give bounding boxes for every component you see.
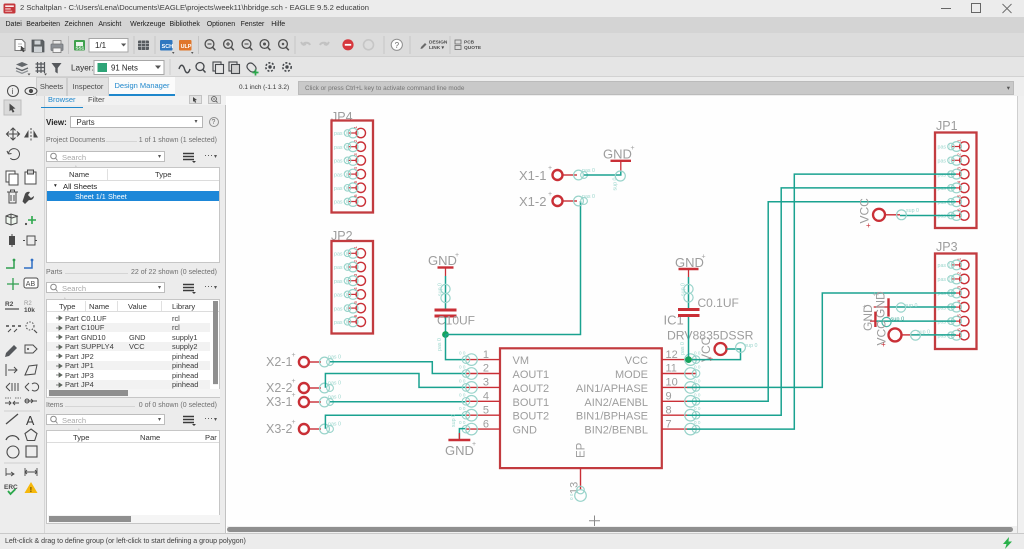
svg-text:pas 0: pas 0 <box>938 291 951 297</box>
IC pin 6 GND <box>459 418 537 436</box>
canvas horizontal scrollbar <box>227 526 1017 533</box>
svg-text:X1-2: X1-2 <box>519 194 546 209</box>
svg-text:4: 4 <box>957 180 962 183</box>
ground GND above C0.1UF <box>675 254 706 278</box>
svg-text:pas 0: pas 0 <box>680 342 686 355</box>
svg-text:sup 0: sup 0 <box>905 303 918 309</box>
svg-text:pas 0: pas 0 <box>938 305 951 311</box>
connector JP2 <box>331 229 373 334</box>
svg-text:pas 0: pas 0 <box>334 145 347 151</box>
svg-text:VM: VM <box>513 355 530 367</box>
connector JP1 <box>935 119 977 228</box>
svg-text:pas 0: pas 0 <box>938 159 951 165</box>
svg-text:+: + <box>631 145 635 152</box>
svg-text:BOUT2: BOUT2 <box>513 411 550 423</box>
mouse crosshair <box>589 516 600 527</box>
wire GND to JP3 pin 4 <box>890 303 957 312</box>
svg-text:+: + <box>702 254 706 261</box>
svg-text:1: 1 <box>957 257 962 260</box>
svg-text:3: 3 <box>957 286 962 289</box>
svg-text:6: 6 <box>353 314 358 317</box>
pin X2-2 <box>266 378 341 395</box>
canvas vertical scrollbar <box>1017 96 1024 533</box>
supply VCC at JP1 pin 6 <box>858 198 886 230</box>
pin X3-1 <box>266 392 341 409</box>
svg-text:1: 1 <box>353 126 358 129</box>
svg-text:SCH: SCH <box>162 44 173 50</box>
IC pin 5 BOUT2 <box>459 404 549 422</box>
svg-text:QUOTE: QUOTE <box>464 45 482 51</box>
svg-text:pas 0: pas 0 <box>334 279 347 285</box>
svg-text:pas 0: pas 0 <box>328 395 341 401</box>
toolbar row 1 <box>0 33 1024 57</box>
svg-text:pas 0: pas 0 <box>334 306 347 312</box>
svg-text:ERC: ERC <box>4 484 18 491</box>
svg-text:JP4: JP4 <box>331 110 353 124</box>
svg-text:X3-1: X3-1 <box>266 395 292 409</box>
svg-text:+: + <box>863 304 867 311</box>
wire X3-2 to IC pin5 BOUT2 <box>325 415 465 429</box>
svg-text:5: 5 <box>353 301 358 304</box>
svg-text:5: 5 <box>957 194 962 197</box>
supply VCC at IC pin 12 <box>699 336 727 363</box>
svg-text:PCB: PCB <box>464 40 475 46</box>
IC pin 10 AIN1/APHASE <box>576 377 701 395</box>
svg-text:0 0: 0 0 <box>694 365 701 370</box>
IC pin 11 MODE <box>615 363 701 381</box>
left panel: design manager <box>45 96 226 533</box>
svg-text:BOUT1: BOUT1 <box>513 397 550 409</box>
pin X1-2 <box>519 191 595 209</box>
svg-text:VCC: VCC <box>625 355 648 367</box>
svg-text:DESIGN: DESIGN <box>429 40 448 46</box>
svg-text:0 0: 0 0 <box>694 406 701 411</box>
toolbar row 2 <box>0 57 1024 77</box>
svg-text:+: + <box>292 378 296 385</box>
wire X1-1 to GND <box>584 171 625 191</box>
wire X3-1 to IC pin4 BOUT1 <box>330 401 465 403</box>
svg-text:BIN2/BENBL: BIN2/BENBL <box>584 425 648 437</box>
wire VCC to junction <box>692 343 758 360</box>
svg-text:3: 3 <box>353 273 358 276</box>
IC pin 13 EP <box>569 468 587 501</box>
svg-text:+: + <box>548 165 552 172</box>
IC pin 7 BIN2/BENBL <box>584 418 700 436</box>
svg-text:0 0: 0 0 <box>459 378 466 383</box>
svg-text:pas 0: pas 0 <box>328 381 341 387</box>
svg-text:i: i <box>12 87 14 96</box>
svg-text:sup 0: sup 0 <box>451 414 457 427</box>
svg-text:0 0: 0 0 <box>569 493 574 500</box>
svg-text:R2: R2 <box>5 301 14 308</box>
svg-text:+: + <box>881 340 886 349</box>
svg-text:pas 0: pas 0 <box>334 172 347 178</box>
svg-text:6: 6 <box>353 194 358 197</box>
svg-text:sup 0: sup 0 <box>891 317 905 323</box>
svg-text:X1-1: X1-1 <box>519 168 546 183</box>
svg-text:0 0: 0 0 <box>694 378 701 383</box>
svg-text:1: 1 <box>483 349 489 361</box>
svg-text:3: 3 <box>353 153 358 156</box>
svg-text:12: 12 <box>666 349 678 361</box>
svg-text:pas 0: pas 0 <box>938 186 951 192</box>
svg-text:2: 2 <box>353 139 358 142</box>
svg-text:pas 0: pas 0 <box>334 265 347 271</box>
wire IC pin 9 to JP1 pin 5 <box>687 202 956 402</box>
wire junction to X1-2 vertical <box>446 201 581 335</box>
svg-text:91 Nets: 91 Nets <box>111 63 138 72</box>
wire junction to IC pin 1 <box>437 335 465 360</box>
svg-text:VCC: VCC <box>858 198 872 224</box>
svg-text:AOUT1: AOUT1 <box>513 369 550 381</box>
svg-text:pas 0: pas 0 <box>328 422 341 428</box>
svg-text:4: 4 <box>353 167 358 170</box>
svg-text:?: ? <box>395 41 400 50</box>
capacitor C10UF <box>435 309 476 328</box>
svg-text:EP: EP <box>576 442 588 458</box>
svg-text:X2-1: X2-1 <box>266 355 292 369</box>
wire IC pin 8 to JP1 pin 4 <box>687 188 956 415</box>
pin X2-1 <box>266 352 341 369</box>
svg-text:10: 10 <box>666 377 678 389</box>
svg-text:sup 0: sup 0 <box>438 283 444 296</box>
svg-text:1: 1 <box>957 139 962 142</box>
svg-text:pas 0: pas 0 <box>938 263 951 269</box>
IC pin 12 VCC <box>625 349 701 367</box>
svg-text:4: 4 <box>957 300 962 303</box>
svg-text:X3-2: X3-2 <box>266 422 292 436</box>
wire GND to C0.1UF <box>681 277 694 308</box>
svg-text:13: 13 <box>569 482 581 494</box>
svg-text:2: 2 <box>957 153 962 156</box>
svg-text:sup 0: sup 0 <box>681 283 687 296</box>
svg-text:+: + <box>472 441 476 448</box>
svg-text:A: A <box>26 414 35 428</box>
svg-text:sup 0: sup 0 <box>906 208 919 214</box>
op-amp / IC U1 DRV8835DSSR body <box>500 313 754 469</box>
supply VCC at JP3 pin 6 <box>875 320 902 349</box>
ground GND at JP3 pin 4 <box>874 291 889 318</box>
svg-text:sup 0: sup 0 <box>613 177 619 190</box>
svg-text:1: 1 <box>353 246 358 249</box>
svg-text:+: + <box>292 392 296 399</box>
status bar <box>0 533 1024 549</box>
svg-text:6: 6 <box>957 208 962 211</box>
svg-text:AOUT2: AOUT2 <box>513 383 550 395</box>
svg-text:+: + <box>292 352 296 359</box>
wire C10UF to junction <box>445 318 447 335</box>
IC pin 9 AIN2/AENBL <box>584 391 700 409</box>
svg-text:2: 2 <box>957 271 962 274</box>
connector JP4 <box>331 110 373 213</box>
svg-text:0 0: 0 0 <box>459 420 466 425</box>
svg-text:pas 0: pas 0 <box>334 200 347 206</box>
svg-text:sup 0: sup 0 <box>917 330 930 336</box>
pin X1-1 <box>519 165 595 183</box>
svg-text:+: + <box>866 221 871 230</box>
capacitor C0.1UF <box>678 296 739 317</box>
svg-text:pas 0: pas 0 <box>334 252 347 258</box>
svg-text:3: 3 <box>483 377 489 389</box>
svg-text:pas 0: pas 0 <box>938 214 951 220</box>
svg-text:pas 0: pas 0 <box>328 355 341 361</box>
svg-text:LINK ▾: LINK ▾ <box>429 45 445 51</box>
svg-text:8: 8 <box>666 404 672 416</box>
svg-text:10k: 10k <box>24 307 35 314</box>
ground GND at IC pin 6 <box>445 414 476 458</box>
svg-text:Layer:: Layer: <box>71 64 94 73</box>
menu bar <box>0 17 1024 33</box>
wire IC pin 7 to JP1 pin 3 <box>687 174 956 429</box>
svg-text:pas 0: pas 0 <box>334 131 347 137</box>
svg-text:GND: GND <box>445 443 474 458</box>
svg-text:GND: GND <box>675 255 704 270</box>
svg-text:pas 0: pas 0 <box>938 172 951 178</box>
svg-text:AIN2/AENBL: AIN2/AENBL <box>584 397 648 409</box>
svg-text:0 0: 0 0 <box>694 392 701 397</box>
wire IC pin 10 to JP3 pin 3 <box>687 292 956 388</box>
svg-text:pas 0: pas 0 <box>334 186 347 192</box>
svg-text:7: 7 <box>666 418 672 430</box>
tab row <box>0 77 1024 96</box>
svg-text:pas 0: pas 0 <box>334 293 347 299</box>
svg-text:1/1: 1/1 <box>95 41 107 50</box>
svg-text:5: 5 <box>483 404 489 416</box>
svg-text:pas 0: pas 0 <box>938 200 951 206</box>
ground GND near C10UF <box>428 252 459 276</box>
IC pin 2 AOUT1 <box>459 363 549 381</box>
svg-text:+: + <box>876 291 880 298</box>
svg-text:BIN1/BPHASE: BIN1/BPHASE <box>576 411 648 423</box>
svg-text:pas 0: pas 0 <box>582 168 595 174</box>
wire GND to JP3 pin 5 <box>876 317 956 327</box>
svg-text:9: 9 <box>666 391 672 403</box>
ground GND near X1-1 <box>603 145 635 172</box>
svg-text:2: 2 <box>353 260 358 263</box>
wire C0.1UF to IC pin 12 <box>680 317 689 360</box>
IC pin 1 VM <box>459 349 529 367</box>
svg-text:3: 3 <box>957 167 962 170</box>
svg-text:4: 4 <box>353 287 358 290</box>
wire X2-1 to IC pin2 AOUT1 <box>330 362 465 374</box>
junction node VCC at pin 12 <box>685 356 692 363</box>
wire GND to C10UF <box>438 276 451 309</box>
svg-text:JP1: JP1 <box>936 119 958 133</box>
svg-text:pas 0: pas 0 <box>582 194 595 200</box>
ground GND at JP3 pin 5 <box>861 304 875 331</box>
svg-text:0 0: 0 0 <box>459 351 466 356</box>
schematic canvas <box>227 96 1017 527</box>
svg-text:pas 0: pas 0 <box>938 319 951 325</box>
svg-text:0 0: 0 0 <box>694 420 701 425</box>
svg-text:pas 0: pas 0 <box>938 277 951 283</box>
svg-text:GND: GND <box>603 147 632 162</box>
pin X3-2 <box>266 419 341 436</box>
svg-text:6: 6 <box>483 418 489 430</box>
svg-text:pas 0: pas 0 <box>437 338 443 351</box>
svg-text:0 0: 0 0 <box>459 406 466 411</box>
svg-text:5: 5 <box>957 314 962 317</box>
svg-text:0 0: 0 0 <box>459 392 466 397</box>
svg-text:pas 0: pas 0 <box>938 145 951 151</box>
svg-text:AIN1/APHASE: AIN1/APHASE <box>576 383 648 395</box>
svg-text:+: + <box>292 419 296 426</box>
svg-text:C0.1UF: C0.1UF <box>698 296 739 310</box>
wire VCC to JP1 pin 6 <box>885 208 956 220</box>
svg-text:5: 5 <box>353 180 358 183</box>
svg-text:pas 0: pas 0 <box>334 320 347 326</box>
IC pin 8 BIN1/BPHASE <box>576 404 701 422</box>
svg-text:pas 0: pas 0 <box>334 159 347 165</box>
svg-text:4: 4 <box>483 391 489 403</box>
svg-text:0 0: 0 0 <box>459 365 466 370</box>
svg-text:SS1: SS1 <box>76 46 85 51</box>
svg-text:+: + <box>548 191 552 198</box>
left tool palette <box>0 96 45 533</box>
svg-text:JP3: JP3 <box>936 240 958 254</box>
svg-text:GND: GND <box>428 253 457 268</box>
IC pin 4 BOUT1 <box>459 391 549 409</box>
svg-text:2: 2 <box>483 363 489 375</box>
junction node VM <box>442 331 449 338</box>
svg-text:ULP: ULP <box>181 44 192 50</box>
svg-text:GND: GND <box>513 425 538 437</box>
IC pin 3 AOUT2 <box>459 377 549 395</box>
svg-text:C10UF: C10UF <box>437 314 475 328</box>
svg-text:AB: AB <box>26 281 36 288</box>
svg-text:X2-2: X2-2 <box>266 381 292 395</box>
wire X2-2 to IC pin3 AOUT2 <box>325 374 465 388</box>
svg-text:+: + <box>455 252 459 259</box>
connector JP3 <box>935 240 977 349</box>
svg-text:MODE: MODE <box>615 369 648 381</box>
svg-text:sup 0: sup 0 <box>745 343 758 349</box>
svg-text:6: 6 <box>957 328 962 331</box>
wire VCC to JP3 pin 6 <box>902 330 957 341</box>
svg-text:11: 11 <box>666 363 677 375</box>
svg-text:!: ! <box>30 487 32 494</box>
title bar <box>0 0 1024 17</box>
